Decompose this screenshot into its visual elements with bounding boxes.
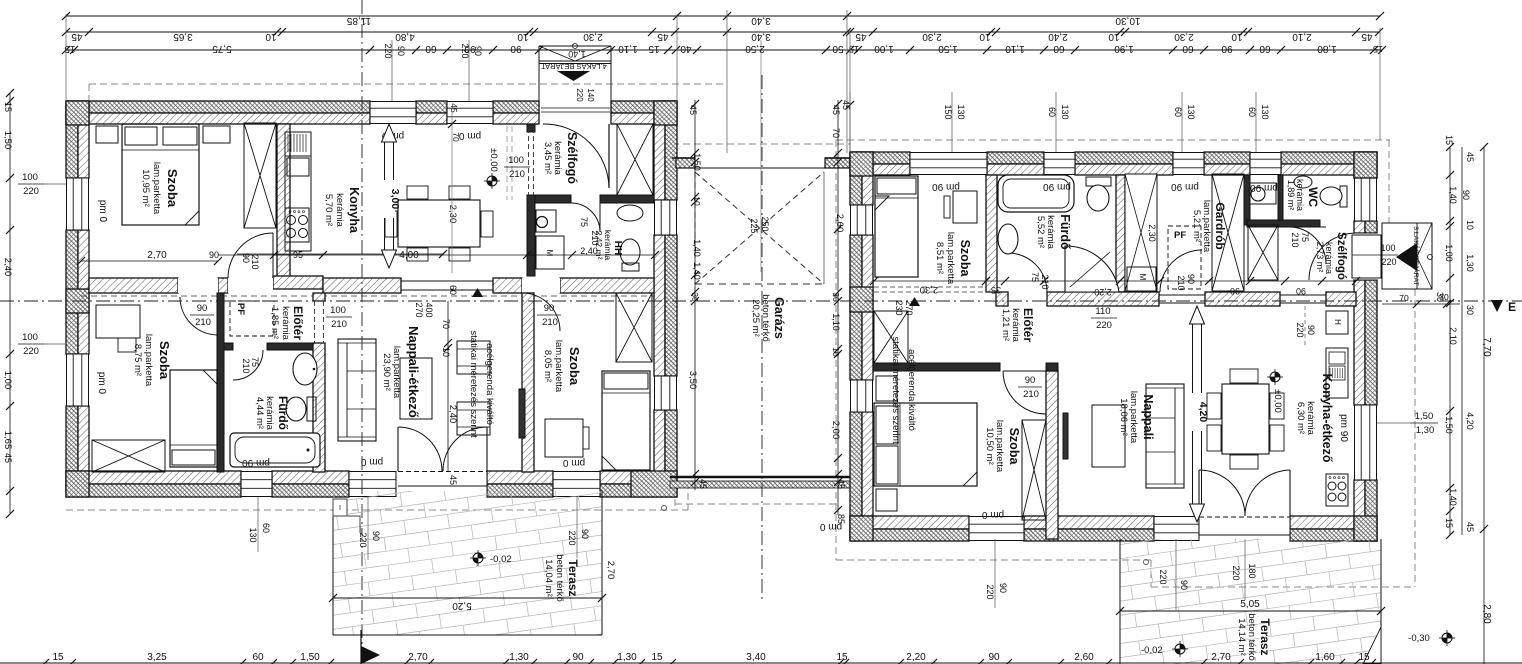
svg-text:15: 15	[1358, 652, 1370, 663]
callout terrace door bottom	[367, 497, 369, 560]
level marker 0,00 left	[487, 176, 497, 186]
svg-text:10,50 m²: 10,50 m²	[984, 427, 995, 465]
svg-text:220: 220	[575, 88, 584, 102]
svg-text:220: 220	[1158, 569, 1168, 584]
fridge H right house	[1326, 311, 1348, 334]
arrow marker nappali	[472, 288, 483, 297]
svg-text:90: 90	[1221, 43, 1233, 54]
svg-text:40: 40	[680, 43, 692, 54]
svg-text:130: 130	[1260, 104, 1270, 119]
svg-text:1,50: 1,50	[1415, 411, 1434, 422]
svg-text:2,40: 2,40	[580, 246, 598, 256]
right house bottom wall	[850, 516, 969, 529]
svg-text:90: 90	[1186, 274, 1196, 284]
svg-text:10: 10	[979, 31, 991, 42]
bed szoba 10,50	[874, 403, 977, 486]
coffee table nappali	[400, 358, 432, 419]
window left garage upper	[850, 205, 873, 235]
terrace french doors	[398, 427, 442, 471]
svg-text:70: 70	[441, 319, 451, 329]
svg-text:1,10: 1,10	[831, 313, 841, 331]
svg-text:2,70: 2,70	[147, 250, 167, 261]
svg-text:60: 60	[1259, 43, 1271, 54]
terrace right level	[1175, 644, 1185, 654]
svg-text:3,40: 3,40	[751, 31, 771, 42]
chairs dining right	[1230, 369, 1258, 383]
svg-text:70: 70	[831, 128, 841, 138]
wall HH east piece	[600, 195, 654, 203]
svg-text:2,30: 2,30	[1147, 224, 1157, 242]
wardrobe szoba 10,95	[244, 123, 276, 228]
svg-text:210: 210	[1040, 274, 1050, 289]
coffee table nappali right	[1092, 405, 1125, 467]
door bathroom right	[1008, 253, 1047, 292]
window top r3	[1173, 152, 1204, 175]
svg-text:2,30: 2,30	[583, 31, 603, 42]
canopy dashed lines entrance	[506, 126, 508, 200]
svg-text:2,70: 2,70	[605, 561, 616, 580]
bed szoba 8,05	[602, 371, 650, 470]
opening eloter-nappali lintel	[1159, 294, 1205, 296]
door bathroom	[233, 350, 263, 380]
svg-text:2,40: 2,40	[447, 405, 458, 424]
svg-text:220: 220	[1295, 322, 1305, 337]
svg-text:2,60: 2,60	[1074, 652, 1094, 663]
svg-text:Előtér: Előtér	[291, 306, 305, 340]
wardrobe szoba 8,51	[874, 311, 908, 363]
right edge chain 1	[1449, 147, 1451, 535]
bath tub left house	[230, 433, 320, 467]
svg-text:Konyha-étkező: Konyha-étkező	[1320, 374, 1334, 463]
svg-text:1,40: 1,40	[568, 49, 586, 59]
svg-text:WC: WC	[1306, 187, 1320, 207]
svg-text:10: 10	[265, 31, 277, 42]
svg-text:45: 45	[855, 31, 867, 42]
carport axis vertical	[761, 75, 763, 600]
wall bathroom/eloter horiz	[224, 343, 233, 350]
terrace left	[281, 381, 734, 664]
svg-text:220: 220	[1381, 257, 1396, 267]
svg-text:Szoba: Szoba	[567, 347, 582, 386]
svg-text:90: 90	[544, 303, 555, 314]
svg-text:10: 10	[692, 196, 702, 206]
svg-text:-0,30: -0,30	[1408, 633, 1430, 644]
svg-text:210: 210	[542, 317, 558, 328]
dim row B right	[850, 31, 1379, 33]
svg-text:90: 90	[1025, 375, 1036, 386]
dashed line below middle wall	[81, 295, 655, 297]
sink bathroom left	[293, 353, 317, 385]
terrace left corner step	[333, 499, 360, 533]
svg-text:3,65: 3,65	[173, 31, 193, 42]
carport overhang dashes south	[674, 488, 676, 510]
svg-text:7,70: 7,70	[1481, 337, 1492, 357]
terrace right	[1072, 422, 1521, 664]
arrow dim 3,00	[384, 140, 386, 252]
svg-text:210: 210	[1290, 232, 1300, 247]
roof overhang left house	[89, 83, 727, 85]
fridge	[285, 132, 311, 156]
downspout circle left house	[662, 506, 667, 511]
dim row C garage	[676, 49, 850, 51]
svg-text:130: 130	[1186, 104, 1196, 119]
svg-text:5,21 m²: 5,21 m²	[1191, 210, 1202, 242]
section flag A bottom	[361, 646, 380, 664]
carport left dim column	[694, 100, 696, 490]
entrance porch right house	[1382, 223, 1432, 289]
svg-text:90: 90	[396, 46, 406, 56]
svg-text:4,80: 4,80	[395, 31, 415, 42]
svg-text:1,89 m²: 1,89 m²	[1286, 180, 1296, 211]
svg-text:pm 0: pm 0	[97, 200, 108, 223]
terrace door opening	[396, 471, 487, 497]
svg-text:pm 90: pm 90	[242, 457, 270, 468]
svg-text:180: 180	[1247, 563, 1257, 578]
svg-text:8,75 m²: 8,75 m²	[132, 344, 143, 376]
svg-text:5,52 m²: 5,52 m²	[1035, 216, 1046, 248]
window bottom bath	[241, 471, 272, 497]
svg-text:Szoba: Szoba	[157, 341, 172, 380]
cased opening eloter-nappali	[314, 301, 316, 343]
svg-text:1,50: 1,50	[1444, 416, 1454, 434]
terrace right corner ramp	[1363, 627, 1381, 664]
arrow marker right house	[909, 297, 920, 306]
svg-text:90: 90	[209, 250, 219, 260]
svg-text:85: 85	[836, 514, 846, 524]
svg-text:100: 100	[1380, 243, 1395, 253]
svg-text:90: 90	[371, 531, 381, 541]
armchair 1	[457, 341, 490, 374]
svg-text:pm 90: pm 90	[1250, 182, 1278, 193]
HH sink	[617, 205, 643, 221]
svg-text:4,20: 4,20	[1197, 402, 1209, 423]
svg-text:130: 130	[248, 527, 258, 542]
desk szoba 8,75	[96, 305, 140, 338]
corner blocks right house	[850, 152, 873, 176]
svg-text:220: 220	[460, 43, 470, 58]
svg-text:2,30: 2,30	[920, 284, 939, 295]
svg-text:10: 10	[1231, 31, 1243, 42]
svg-text:60: 60	[261, 523, 271, 533]
svg-text:1,85 m²: 1,85 m²	[269, 307, 280, 339]
svg-text:11,85: 11,85	[346, 15, 371, 26]
wall wc/szelfogo east piece	[1278, 175, 1283, 220]
svg-text:30: 30	[1465, 305, 1475, 315]
roof overhang right house	[836, 139, 1390, 141]
svg-text:90: 90	[1306, 325, 1316, 335]
opening konyha lintel	[1280, 294, 1326, 296]
horizontal axis line	[0, 300, 1522, 302]
svg-text:35: 35	[991, 285, 1001, 295]
svg-text:2,50: 2,50	[745, 43, 765, 54]
svg-text:8,05 m²: 8,05 m²	[542, 350, 553, 382]
svg-text:270: 270	[904, 300, 914, 315]
dim 95 kitchen	[274, 254, 323, 256]
svg-text:210: 210	[1176, 275, 1186, 290]
middle wall band right house	[996, 292, 1008, 306]
svg-text:2,30: 2,30	[922, 31, 942, 42]
wall nappali/szoba805	[522, 293, 534, 472]
svg-text:210: 210	[1023, 389, 1039, 400]
dim row B garage	[675, 31, 850, 33]
dim 4,00 dining	[237, 253, 443, 255]
svg-text:H: H	[1333, 319, 1342, 325]
carport top beam line	[695, 167, 825, 169]
svg-text:1,60: 1,60	[1315, 652, 1335, 663]
svg-text:10: 10	[441, 347, 451, 357]
svg-text:45: 45	[3, 453, 13, 463]
svg-text:Fürdő: Fürdő	[1058, 214, 1072, 250]
sofa nappali	[338, 339, 376, 441]
svg-text:210: 210	[509, 169, 525, 180]
dim 2,70 szoba	[81, 260, 218, 262]
window bottom r1	[969, 516, 1024, 541]
svg-text:10: 10	[517, 31, 529, 42]
stove right house	[1326, 474, 1348, 506]
left house left wall	[66, 101, 78, 178]
svg-text:±0,00: ±0,00	[488, 148, 499, 172]
entrance arrow right house	[1396, 243, 1417, 271]
svg-text:Szoba: Szoba	[958, 240, 972, 278]
svg-text:3,00: 3,00	[389, 189, 401, 210]
svg-text:Fürdő: Fürdő	[276, 396, 290, 430]
svg-text:pm 0: pm 0	[562, 457, 585, 468]
svg-text:3,40: 3,40	[751, 15, 771, 26]
svg-text:90: 90	[988, 652, 1000, 663]
HH water heater	[536, 210, 556, 232]
door gap szoba 10,95	[228, 278, 273, 293]
svg-text:Előtér: Előtér	[1021, 308, 1035, 342]
desk szoba 8,51	[953, 191, 977, 223]
svg-text:pm 0: pm 0	[360, 456, 383, 467]
svg-text:1,21 m²: 1,21 m²	[1000, 309, 1011, 341]
svg-text:1,50: 1,50	[938, 43, 958, 54]
terrace right dim 5,05	[1120, 610, 1381, 612]
svg-text:75: 75	[579, 217, 589, 227]
terrace left level	[473, 553, 483, 563]
svg-text:2,20: 2,20	[1094, 287, 1112, 297]
svg-text:2,10: 2,10	[1292, 31, 1312, 42]
tv bar nappali	[1063, 413, 1068, 459]
door szoba 8,75	[180, 297, 218, 335]
svg-text:150: 150	[943, 104, 953, 119]
wardrobe column gardrob west	[1125, 174, 1157, 291]
svg-text:1,65: 1,65	[2, 431, 13, 450]
window top r1	[910, 152, 987, 175]
svg-text:2,10: 2,10	[1448, 327, 1458, 345]
svg-text:90: 90	[510, 43, 522, 54]
svg-text:75: 75	[1300, 232, 1310, 242]
dim row C left	[66, 49, 676, 51]
svg-text:1,40: 1,40	[1448, 488, 1458, 506]
svg-text:14,14 m²: 14,14 m²	[1236, 618, 1247, 656]
window callouts left house top	[391, 40, 393, 101]
svg-text:PF: PF	[235, 303, 246, 315]
svg-text:60: 60	[448, 285, 458, 295]
svg-text:210: 210	[195, 317, 211, 328]
window top r2	[1044, 152, 1075, 175]
svg-text:220: 220	[23, 346, 39, 357]
svg-text:110: 110	[1095, 306, 1110, 317]
right house bottom wall insulation layer	[850, 529, 969, 541]
svg-text:M: M	[545, 250, 554, 257]
svg-text:100: 100	[508, 155, 524, 166]
svg-text:45: 45	[657, 31, 669, 42]
svg-text:140: 140	[586, 88, 595, 102]
svg-text:90: 90	[473, 46, 483, 56]
svg-text:2,70: 2,70	[408, 652, 428, 663]
svg-text:E: E	[1508, 300, 1516, 314]
svg-text:18,06 m²: 18,06 m²	[1118, 398, 1129, 436]
svg-text:1,90: 1,90	[1114, 43, 1134, 54]
svg-text:acélgerenda kiváltó: acélgerenda kiváltó	[906, 349, 917, 431]
svg-text:60: 60	[1173, 107, 1183, 117]
svg-text:130: 130	[1060, 104, 1070, 119]
svg-text:10,30: 10,30	[1115, 15, 1140, 26]
wall szelfogo/HH	[535, 195, 571, 203]
window right wall upper	[654, 200, 677, 235]
svg-text:45: 45	[1465, 522, 1475, 532]
svg-text:-0,02: -0,02	[1141, 645, 1163, 656]
wall szelfogo west	[527, 124, 535, 132]
dining table right house	[1222, 384, 1269, 454]
svg-text:lam.parketta: lam.parketta	[553, 340, 564, 393]
svg-text:kerámia: kerámia	[280, 306, 291, 341]
door wc	[1289, 227, 1326, 264]
svg-text:45: 45	[71, 31, 83, 42]
svg-text:3,25: 3,25	[147, 652, 167, 663]
wall szoba851/bathroom	[986, 175, 997, 292]
callout szoba1050 window bottom	[994, 539, 996, 608]
door gap szoba805	[522, 278, 560, 293]
svg-text:90: 90	[241, 253, 251, 263]
svg-text:100: 100	[22, 172, 38, 183]
svg-text:45: 45	[831, 105, 841, 115]
szelfogo west cased opening	[528, 128, 530, 195]
svg-text:±0,00: ±0,00	[1272, 389, 1283, 413]
svg-text:220: 220	[1231, 565, 1241, 580]
left house right wall	[654, 101, 665, 200]
marker E	[1491, 300, 1503, 312]
svg-text:90: 90	[998, 583, 1008, 593]
svg-text:4,00: 4,00	[399, 250, 419, 261]
svg-text:2,20: 2,20	[906, 652, 926, 663]
arrow dim 4,20	[1192, 322, 1194, 506]
svg-text:14,04 m²: 14,04 m²	[543, 559, 554, 597]
window bottom r2	[1154, 516, 1199, 541]
window right WC	[1354, 178, 1377, 221]
callout nappali window bottom	[1175, 539, 1177, 610]
opening living-dining lintel	[401, 280, 493, 282]
carport right dim column	[837, 100, 839, 515]
svg-text:250: 250	[760, 216, 770, 231]
wall kitchen west	[277, 124, 290, 277]
svg-text:pm 90: pm 90	[1171, 181, 1199, 192]
svg-text:PF: PF	[1174, 230, 1186, 241]
svg-text:400: 400	[424, 302, 434, 317]
dim row B left	[66, 31, 675, 33]
window left W2	[66, 354, 89, 406]
svg-text:10,95 m²: 10,95 m²	[140, 169, 151, 207]
gardrob corner basin O	[1250, 183, 1276, 204]
svg-text:45: 45	[1361, 31, 1373, 42]
svg-text:90: 90	[197, 303, 208, 314]
svg-text:220: 220	[23, 186, 39, 197]
window top r4	[1250, 152, 1281, 175]
svg-text:45: 45	[841, 100, 851, 110]
right edge outer chain	[1483, 147, 1485, 664]
svg-text:210: 210	[241, 358, 251, 373]
svg-text:90: 90	[572, 652, 584, 663]
svg-text:pm 90: pm 90	[1338, 414, 1349, 442]
entrance landing lines	[541, 107, 610, 109]
room dim line left house	[218, 254, 655, 256]
svg-text:pm 0: pm 0	[981, 509, 1004, 520]
svg-text:130: 130	[956, 104, 966, 119]
svg-text:220: 220	[1096, 320, 1112, 331]
window right wall lower	[654, 376, 677, 410]
nightstand top	[876, 376, 897, 401]
svg-text:2,30: 2,30	[447, 205, 458, 224]
svg-text:45: 45	[688, 105, 698, 115]
shower right house	[1065, 246, 1119, 292]
door HH	[571, 203, 600, 232]
bath tub right house	[998, 175, 1074, 212]
kitchen counter right house	[1326, 348, 1348, 398]
dim row C right	[850, 49, 1382, 51]
svg-text:5,75: 5,75	[212, 43, 232, 54]
carport top pier left	[676, 158, 695, 168]
svg-text:Gardrób: Gardrób	[1213, 202, 1227, 249]
entrance porch left house	[538, 46, 540, 101]
svg-text:Konyha: Konyha	[347, 187, 361, 234]
svg-text:1,00: 1,00	[874, 43, 894, 54]
nightstand right	[203, 126, 230, 143]
window top W1	[370, 101, 416, 124]
kitchen counter	[285, 132, 311, 251]
carport south insulation strip	[670, 481, 850, 488]
svg-text:1,10: 1,10	[1005, 43, 1025, 54]
svg-text:95: 95	[293, 250, 303, 260]
svg-text:Terasz: Terasz	[1258, 618, 1272, 655]
dim row bottom	[0, 662, 1522, 664]
corner blocks left house	[66, 101, 89, 125]
svg-text:10: 10	[1108, 31, 1120, 42]
sink bathroom right	[998, 224, 1018, 254]
svg-text:60: 60	[252, 652, 264, 663]
svg-text:2,00: 2,00	[830, 421, 841, 440]
svg-text:Nappali: Nappali	[1141, 394, 1155, 439]
svg-text:15: 15	[52, 652, 64, 663]
svg-text:1,40: 1,40	[1448, 186, 1458, 204]
svg-text:210: 210	[250, 254, 260, 269]
left house top wall	[66, 101, 370, 113]
wall wc south	[1247, 220, 1320, 227]
left edge chain	[9, 93, 11, 514]
svg-text:220: 220	[985, 584, 995, 599]
svg-text:15: 15	[1444, 135, 1454, 145]
door szoba 8,05	[522, 293, 560, 331]
toilet bathroom right	[1086, 177, 1111, 186]
wardrobe szoba 8,75	[92, 440, 165, 472]
svg-text:1,00: 1,00	[1444, 244, 1454, 262]
desk szoba 8,05	[545, 419, 583, 457]
svg-text:230: 230	[894, 300, 904, 315]
svg-text:1,10: 1,10	[618, 43, 638, 54]
svg-text:1,30: 1,30	[1465, 254, 1475, 272]
HH washing machine	[536, 236, 564, 269]
svg-text:Nappali-étkező: Nappali-étkező	[406, 326, 421, 418]
